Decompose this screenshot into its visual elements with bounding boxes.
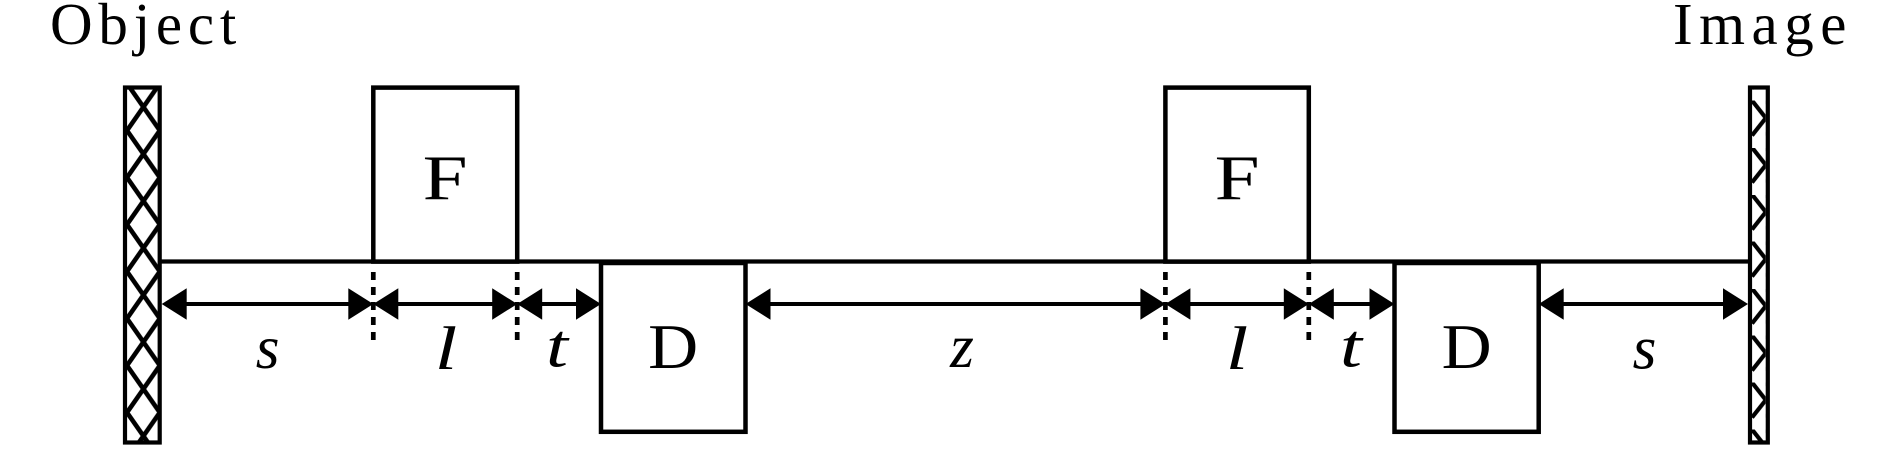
- lens box F1: [373, 88, 517, 262]
- svg-text:Object: Object: [50, 0, 242, 57]
- object plane hatched bar: [125, 88, 160, 443]
- dimension arrow l (second lens): [1165, 288, 1308, 320]
- svg-text:Image: Image: [1673, 0, 1853, 57]
- dashed extension of F2 right edge: [1306, 265, 1311, 342]
- svg-text:F: F: [1215, 142, 1260, 213]
- svg-text:s: s: [256, 315, 280, 382]
- svg-text:t: t: [546, 314, 571, 381]
- dashed extension of F1 right edge: [515, 265, 520, 342]
- svg-text:D: D: [1442, 311, 1492, 382]
- dimension arrow z (drift): [746, 288, 1166, 320]
- lens box F2: [1165, 88, 1308, 262]
- detector box D1: [601, 263, 746, 432]
- dashed extension of F1 left edge: [371, 265, 376, 342]
- svg-text:l: l: [435, 316, 458, 383]
- svg-text:F: F: [423, 142, 468, 213]
- dimension arrow t (second gap): [1309, 288, 1395, 320]
- image plane hatched bar: [1750, 88, 1768, 443]
- svg-text:s: s: [1633, 316, 1657, 383]
- svg-text:z: z: [949, 314, 974, 381]
- svg-text:t: t: [1340, 314, 1365, 381]
- dimension arrow s (image side): [1539, 288, 1748, 320]
- dimension arrow l (first lens): [373, 288, 517, 320]
- dimension arrow t (first gap): [517, 288, 601, 320]
- dimension arrow s (object side): [162, 288, 374, 320]
- detector box D2: [1395, 263, 1539, 432]
- dashed extension of F2 left edge: [1163, 265, 1168, 342]
- optical axis: [159, 259, 1750, 263]
- svg-text:D: D: [648, 311, 698, 382]
- svg-text:l: l: [1226, 316, 1249, 383]
